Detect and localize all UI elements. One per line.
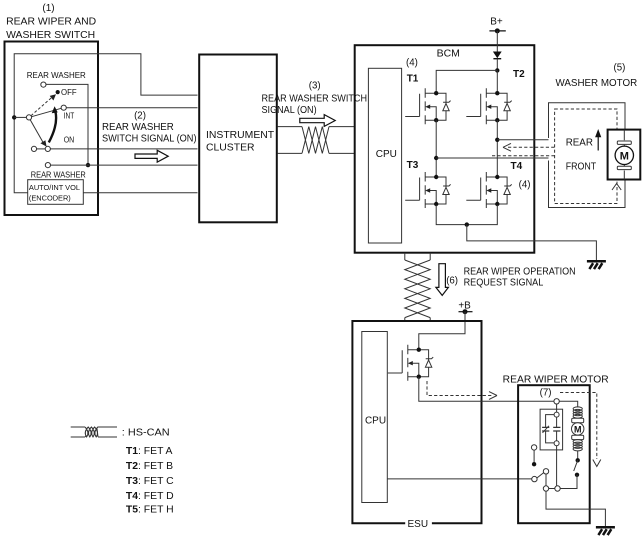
- CPU box in BCM: [368, 68, 401, 243]
- node REAR: [495, 138, 499, 142]
- svg-text:REAR: REAR: [566, 138, 593, 149]
- terminal: rear washer bottom: [45, 163, 50, 168]
- arrow up (rear): [597, 136, 599, 151]
- svg-text:REAR WASHER SWITCH: REAR WASHER SWITCH: [262, 94, 368, 105]
- switch blade pivot: [532, 476, 537, 481]
- wire: T2 source to T4 drain: [496, 120, 498, 177]
- park blade: [574, 460, 578, 471]
- coil L2 (bottom): [573, 440, 582, 451]
- svg-text:(4): (4): [519, 179, 531, 190]
- wire: ON to cluster: [51, 148, 198, 150]
- blade: pole to ON: [30, 120, 43, 143]
- svg-text:T1: FET A: T1: FET A: [126, 446, 173, 457]
- main switch contact circle: [555, 486, 560, 491]
- svg-text:(1): (1): [42, 3, 54, 14]
- wire: blade tip down to junction: [545, 474, 547, 486]
- capacitor C1: [556, 417, 558, 441]
- wire: INT to cluster: [66, 107, 197, 109]
- transistor T3: [405, 172, 450, 208]
- svg-text:REAR WASHER: REAR WASHER: [27, 70, 86, 80]
- wire between ON contacts: [37, 148, 45, 150]
- wire: T5 source to rear wiper motor: [419, 377, 554, 401]
- svg-text:T1: T1: [407, 73, 419, 84]
- svg-text:(7): (7): [540, 388, 552, 399]
- coil L1 (top): [573, 407, 582, 418]
- dashed: rear wiper request path: [427, 381, 493, 396]
- svg-text:SWITCH SIGNAL (ON): SWITCH SIGNAL (ON): [102, 134, 197, 145]
- wire: junction to motor ground: [546, 489, 605, 527]
- dashed current path front: [492, 155, 555, 157]
- node: common bus junction: [12, 115, 16, 119]
- wire coil to park contact: [577, 451, 579, 461]
- svg-text:WASHER MOTOR: WASHER MOTOR: [556, 78, 638, 89]
- instrument cluster box: [199, 55, 277, 223]
- arrow (6) down: [436, 264, 449, 296]
- transistor T4: [466, 172, 511, 208]
- wire: encoder to cluster: [83, 192, 197, 194]
- svg-text:BCM: BCM: [437, 48, 460, 60]
- wire: bridge bottom: [436, 205, 497, 225]
- switch pole terminal: [26, 115, 31, 120]
- svg-text:(4): (4): [406, 57, 418, 68]
- wire: terminal to cap and motor: [557, 401, 578, 412]
- wire: FRONT output to washer motor: [436, 157, 548, 159]
- wire: CAN high cluster to BCM: [278, 126, 355, 128]
- svg-text:M: M: [574, 424, 582, 434]
- dashed blade to OFF: [31, 98, 52, 116]
- CPU box in ESU: [362, 332, 388, 503]
- wire: cap bottom to switch junction: [556, 446, 558, 486]
- wire: ESU CPU to wiper switch: [387, 478, 531, 480]
- park contact lower: [575, 473, 579, 477]
- svg-text:INT: INT: [64, 111, 75, 121]
- blade tip circle: [543, 469, 548, 474]
- transistor T1: [405, 88, 450, 124]
- park contact upper: [576, 458, 580, 462]
- contact INT: [61, 105, 66, 110]
- switch blade: [537, 473, 544, 478]
- transistor T2: [466, 88, 511, 124]
- wire: CAN low cluster to BCM: [278, 152, 355, 154]
- arrow (3): [300, 115, 335, 127]
- node A: B+ rail split: [495, 68, 499, 72]
- rear wiper motor box: [518, 385, 590, 523]
- svg-text:REQUEST SIGNAL: REQUEST SIGNAL: [464, 277, 544, 288]
- svg-text:REAR WASHER: REAR WASHER: [102, 122, 174, 133]
- svg-text:T4: FET D: T4: FET D: [126, 491, 174, 502]
- contact ON left: [31, 146, 36, 151]
- svg-text:AUTO/INT VOL: AUTO/INT VOL: [29, 183, 80, 192]
- washer motor box: [608, 130, 641, 180]
- svg-text:(2): (2): [134, 110, 146, 121]
- diode D1: [493, 52, 502, 59]
- node: junction rear washer wires: [86, 163, 90, 167]
- ground (rear wiper motor): [596, 527, 615, 535]
- node: bridge bottom junction: [465, 222, 469, 226]
- twisted pair BCM to ESU: [404, 253, 406, 321]
- upper throw contact: [531, 445, 536, 450]
- svg-text:T5: FET H: T5: FET H: [126, 505, 174, 516]
- svg-text:T4: T4: [511, 161, 523, 172]
- svg-text:(ENCODER): (ENCODER): [29, 193, 71, 202]
- contact OFF: [56, 90, 60, 94]
- wire: REAR output to washer motor: [497, 139, 548, 141]
- svg-text:CPU: CPU: [365, 415, 386, 426]
- rotation arc: [49, 112, 56, 143]
- wire: rear washer to cluster: [51, 164, 198, 166]
- washer motor M: [623, 130, 625, 180]
- svg-text:T2: FET B: T2: FET B: [126, 461, 173, 472]
- dashed arrowhead up into motor: [612, 184, 621, 191]
- svg-text:WASHER SWITCH: WASHER SWITCH: [6, 30, 95, 41]
- rear wiper and washer switch box: [5, 42, 99, 216]
- svg-text:(6): (6): [446, 276, 458, 287]
- svg-text:CPU: CPU: [376, 149, 397, 160]
- svg-text:: HS-CAN: : HS-CAN: [122, 428, 170, 439]
- wire: bus to switch pole: [14, 116, 26, 118]
- svg-text:REAR WIPER AND: REAR WIPER AND: [6, 17, 96, 28]
- svg-text:OFF: OFF: [61, 87, 77, 97]
- svg-text:INSTRUMENT: INSTRUMENT: [206, 130, 275, 141]
- svg-text:SIGNAL (ON): SIGNAL (ON): [262, 105, 317, 116]
- terminal (7): [554, 399, 559, 404]
- brush top: [572, 418, 584, 422]
- svg-text:(5): (5): [613, 63, 625, 74]
- wire: bridge to ground: [467, 225, 597, 261]
- dashed path from (7): [560, 393, 597, 460]
- wire: park contact to junction: [560, 475, 577, 489]
- wire: +B to ESU FET drain: [419, 312, 465, 350]
- blade: pole to INT: [32, 108, 62, 116]
- terminal: rear washer top: [41, 82, 46, 87]
- svg-text:REAR WIPER MOTOR: REAR WIPER MOTOR: [503, 374, 609, 385]
- transistor T5 (ESU): [388, 345, 433, 381]
- svg-text:ESU: ESU: [408, 519, 429, 530]
- wire: T1 source to T3 drain: [435, 120, 437, 177]
- wire: rail to T2: [496, 70, 498, 93]
- ESU box: [352, 321, 481, 523]
- encoder box AUTO/INT VOL: [28, 180, 84, 205]
- svg-text:M: M: [620, 150, 629, 162]
- ground (BCM): [587, 261, 606, 269]
- wiper motor M: [572, 423, 584, 435]
- twisted pair braid: [302, 127, 329, 154]
- svg-text:REAR WIPER OPERATION: REAR WIPER OPERATION: [464, 266, 576, 277]
- svg-text:T3: FET C: T3: FET C: [126, 476, 174, 487]
- washer motor dashed box: [555, 109, 617, 204]
- svg-text:B+: B+: [490, 17, 503, 28]
- svg-text:(3): (3): [309, 80, 321, 91]
- svg-text:CLUSTER: CLUSTER: [206, 142, 255, 153]
- node FRONT: [434, 156, 438, 160]
- BCM box: [355, 45, 535, 253]
- contact ON right: [45, 146, 50, 151]
- dashed current path rear (arrow left): [508, 146, 555, 148]
- svg-text:REAR WASHER: REAR WASHER: [31, 169, 86, 179]
- noise capacitor box: [540, 409, 563, 450]
- capacitor C2 (left branch): [546, 415, 555, 443]
- wire: B+ into BCM: [496, 31, 498, 52]
- svg-text:T3: T3: [407, 160, 419, 171]
- arrow (2): [135, 150, 168, 162]
- svg-text:ON: ON: [64, 135, 74, 145]
- washer motor assembly box: [549, 103, 626, 208]
- wire: switch common bus from encoder to cluster (with jog): [14, 54, 197, 193]
- wire: rear washer top to bottom junction: [46, 84, 88, 165]
- svg-text:T2: T2: [513, 69, 525, 80]
- legend HS-CAN symbol: [71, 427, 117, 437]
- junction circle: [543, 486, 548, 491]
- svg-text:FRONT: FRONT: [566, 161, 597, 172]
- wire: rail to T1: [436, 70, 497, 93]
- brush bottom: [572, 435, 584, 439]
